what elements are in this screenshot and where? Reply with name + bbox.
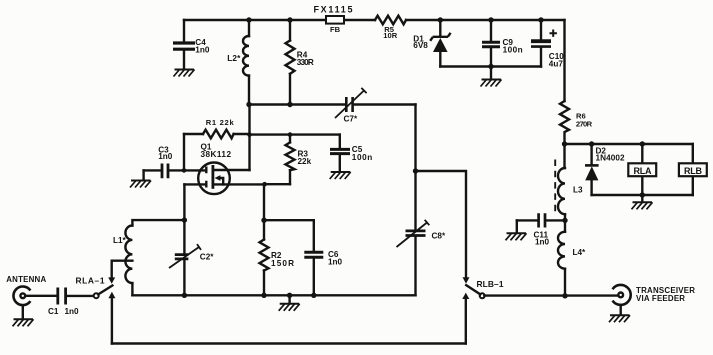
wire: relay supply line bbox=[565, 143, 693, 145]
wire: drain bus (L2/R4 bottom to C7) bbox=[249, 103, 416, 105]
svg-text:ANTENNA: ANTENNA bbox=[6, 275, 46, 284]
diode D2 (1N4002) bbox=[585, 144, 625, 195]
node: R6 bottom junction bbox=[562, 141, 567, 146]
svg-text:38K112: 38K112 bbox=[201, 150, 232, 159]
node: source bias junction bbox=[262, 182, 267, 187]
svg-text:270R: 270R bbox=[576, 119, 593, 128]
relay contact RLB-1 bbox=[466, 279, 504, 298]
svg-text:RLA–1: RLA–1 bbox=[76, 276, 105, 286]
node: output tank junction bbox=[413, 168, 418, 173]
svg-text:1n0: 1n0 bbox=[535, 237, 550, 246]
variable capacitor C7 bbox=[335, 88, 367, 124]
node: RLA upper contact arrow bbox=[108, 277, 115, 283]
svg-text:L3: L3 bbox=[573, 186, 583, 195]
variable capacitor C2 bbox=[169, 220, 214, 295]
wire: top supply rail bbox=[184, 19, 565, 21]
wire: L1 tap to RLA contact bbox=[112, 261, 133, 278]
zener diode D1 bbox=[413, 20, 450, 67]
capacitor C11 bbox=[517, 213, 565, 246]
svg-text:L2*: L2* bbox=[227, 54, 241, 63]
svg-text:R1 22k: R1 22k bbox=[206, 118, 235, 127]
wire: drain vertical bbox=[248, 105, 250, 171]
wire: output tank to RLB contact bbox=[416, 171, 467, 277]
wire: source down to input tank bbox=[183, 184, 185, 220]
node: R1 right / drain junction bbox=[247, 132, 252, 137]
ground at C3 bbox=[130, 181, 151, 188]
wire: rail corner down to R6 bbox=[563, 20, 565, 101]
wire: tank top to L1 bbox=[132, 220, 184, 225]
svg-text:330R: 330R bbox=[297, 58, 314, 67]
variable capacitor C8 bbox=[397, 171, 446, 295]
wire: L3 branch from R6 node bbox=[563, 144, 565, 168]
resistor R2 bbox=[260, 220, 295, 295]
wire: bypass bottom run bbox=[112, 342, 466, 344]
wire: RLB pole to transceiver bbox=[484, 294, 618, 296]
resistor R6 bbox=[560, 101, 593, 144]
node: D2 top junction bbox=[589, 141, 594, 146]
resistor R5 bbox=[375, 16, 406, 40]
inductor L1 (tapped) bbox=[113, 226, 132, 296]
wire: C7 right to output tank top bbox=[414, 105, 416, 172]
capacitor C9 bbox=[482, 20, 523, 67]
node: R2 top junction bbox=[261, 218, 266, 223]
capacitor C5 bbox=[330, 135, 372, 171]
wire: input tank bottom bus bbox=[132, 294, 415, 296]
node: L2 bottom junction bbox=[246, 102, 251, 107]
transistor Q1 (MOSFET 38K112) bbox=[184, 142, 264, 194]
capacitor C3 bbox=[144, 146, 206, 180]
wire: source/R3 node down to R2 bbox=[263, 184, 265, 220]
svg-text:1n0: 1n0 bbox=[328, 258, 343, 267]
node: source / C2 / L1 junction bbox=[182, 217, 187, 222]
svg-text:C7*: C7* bbox=[344, 115, 358, 124]
ground at C11 bbox=[506, 233, 527, 240]
node: C6 bottom junction bbox=[311, 293, 316, 298]
ground under tank bus bbox=[279, 295, 300, 311]
node: L2 top junction bbox=[246, 17, 251, 22]
connector: TRANSCEIVER socket bbox=[613, 285, 696, 314]
ground under C4 bbox=[174, 70, 195, 77]
svg-text:1n0: 1n0 bbox=[158, 152, 173, 161]
svg-text:100n: 100n bbox=[503, 45, 523, 54]
svg-text:VIA FEEDER: VIA FEEDER bbox=[636, 294, 685, 303]
ferrite bead FB (FX1115) bbox=[314, 5, 353, 34]
ground under transceiver bbox=[609, 315, 630, 322]
relay contact RLA-1 bbox=[76, 276, 113, 299]
node: RLB upper contact arrow bbox=[463, 277, 470, 283]
ground under relays bbox=[632, 195, 653, 209]
capacitor C6 bbox=[304, 250, 342, 295]
node: C9 top junction bbox=[488, 17, 493, 22]
svg-text:10R: 10R bbox=[383, 31, 397, 40]
inductor L2 bbox=[227, 20, 249, 105]
node: ground stem junction bbox=[287, 293, 292, 298]
svg-text:22k: 22k bbox=[298, 157, 312, 166]
svg-text:1N4002: 1N4002 bbox=[596, 153, 625, 162]
node: C9 bottom junction bbox=[488, 64, 493, 69]
node: L4 bottom junction bbox=[562, 293, 567, 298]
svg-text:4u7: 4u7 bbox=[549, 60, 564, 69]
wire: D1/C9/C10 bottom bus bbox=[440, 65, 541, 67]
svg-text:1n0: 1n0 bbox=[65, 307, 80, 316]
node: C2 bottom junction bbox=[182, 293, 187, 298]
capacitor C10 (electrolytic) bbox=[531, 20, 564, 69]
svg-text:C8*: C8* bbox=[432, 232, 446, 241]
svg-text:150R: 150R bbox=[271, 259, 294, 268]
relay coil RLB bbox=[679, 144, 707, 195]
resistor R4 bbox=[286, 20, 314, 105]
svg-text:RLA: RLA bbox=[634, 166, 653, 176]
node: R2 bottom junction bbox=[261, 293, 266, 298]
node: R3 top junction bbox=[288, 132, 293, 137]
ground under antenna bbox=[13, 319, 34, 326]
resistor R1 bbox=[184, 118, 250, 170]
node: C10 top junction bbox=[538, 17, 543, 22]
svg-text:100n: 100n bbox=[352, 153, 373, 162]
ground under C9 bbox=[481, 67, 502, 87]
wire: bias bus to R3/C5 bbox=[250, 133, 340, 135]
wire: dashed core line bbox=[554, 160, 556, 214]
node: relay ground junction bbox=[640, 192, 645, 197]
svg-text:C1: C1 bbox=[48, 307, 59, 316]
ground under C5 bbox=[330, 172, 351, 179]
wire: bypass riser left (arrow up) bbox=[111, 298, 113, 343]
svg-text:RLB: RLB bbox=[684, 166, 703, 176]
node: R4 bottom junction bbox=[287, 102, 292, 107]
wire: R2 top to C6 bbox=[264, 220, 314, 251]
capacitor C1 bbox=[26, 288, 94, 317]
svg-text:6V8: 6V8 bbox=[413, 41, 428, 50]
capacitor C4 bbox=[173, 20, 210, 69]
svg-text:L4*: L4* bbox=[573, 248, 587, 257]
svg-text:L1*: L1* bbox=[113, 236, 127, 245]
connector: ANTENNA socket bbox=[6, 275, 46, 318]
node: D1 top junction bbox=[438, 17, 443, 22]
node: R4 top junction bbox=[287, 17, 292, 22]
relay coil RLA bbox=[628, 144, 656, 195]
wire: relay bottom bus bbox=[592, 194, 693, 196]
wire: bypass riser right (arrow up) bbox=[465, 299, 467, 343]
svg-text:1n0: 1n0 bbox=[195, 45, 210, 54]
node: gate / R1 junction bbox=[182, 168, 187, 173]
inductor L4 bbox=[558, 220, 586, 295]
inductor L3 bbox=[558, 168, 583, 220]
svg-text:FB: FB bbox=[330, 25, 341, 34]
svg-text:RLB–1: RLB–1 bbox=[477, 279, 504, 289]
svg-text:C2*: C2* bbox=[200, 253, 214, 262]
resistor R3 bbox=[265, 135, 312, 185]
node: C11 / L3 / L4 junction bbox=[562, 218, 567, 223]
node: RLA top junction bbox=[640, 141, 645, 146]
